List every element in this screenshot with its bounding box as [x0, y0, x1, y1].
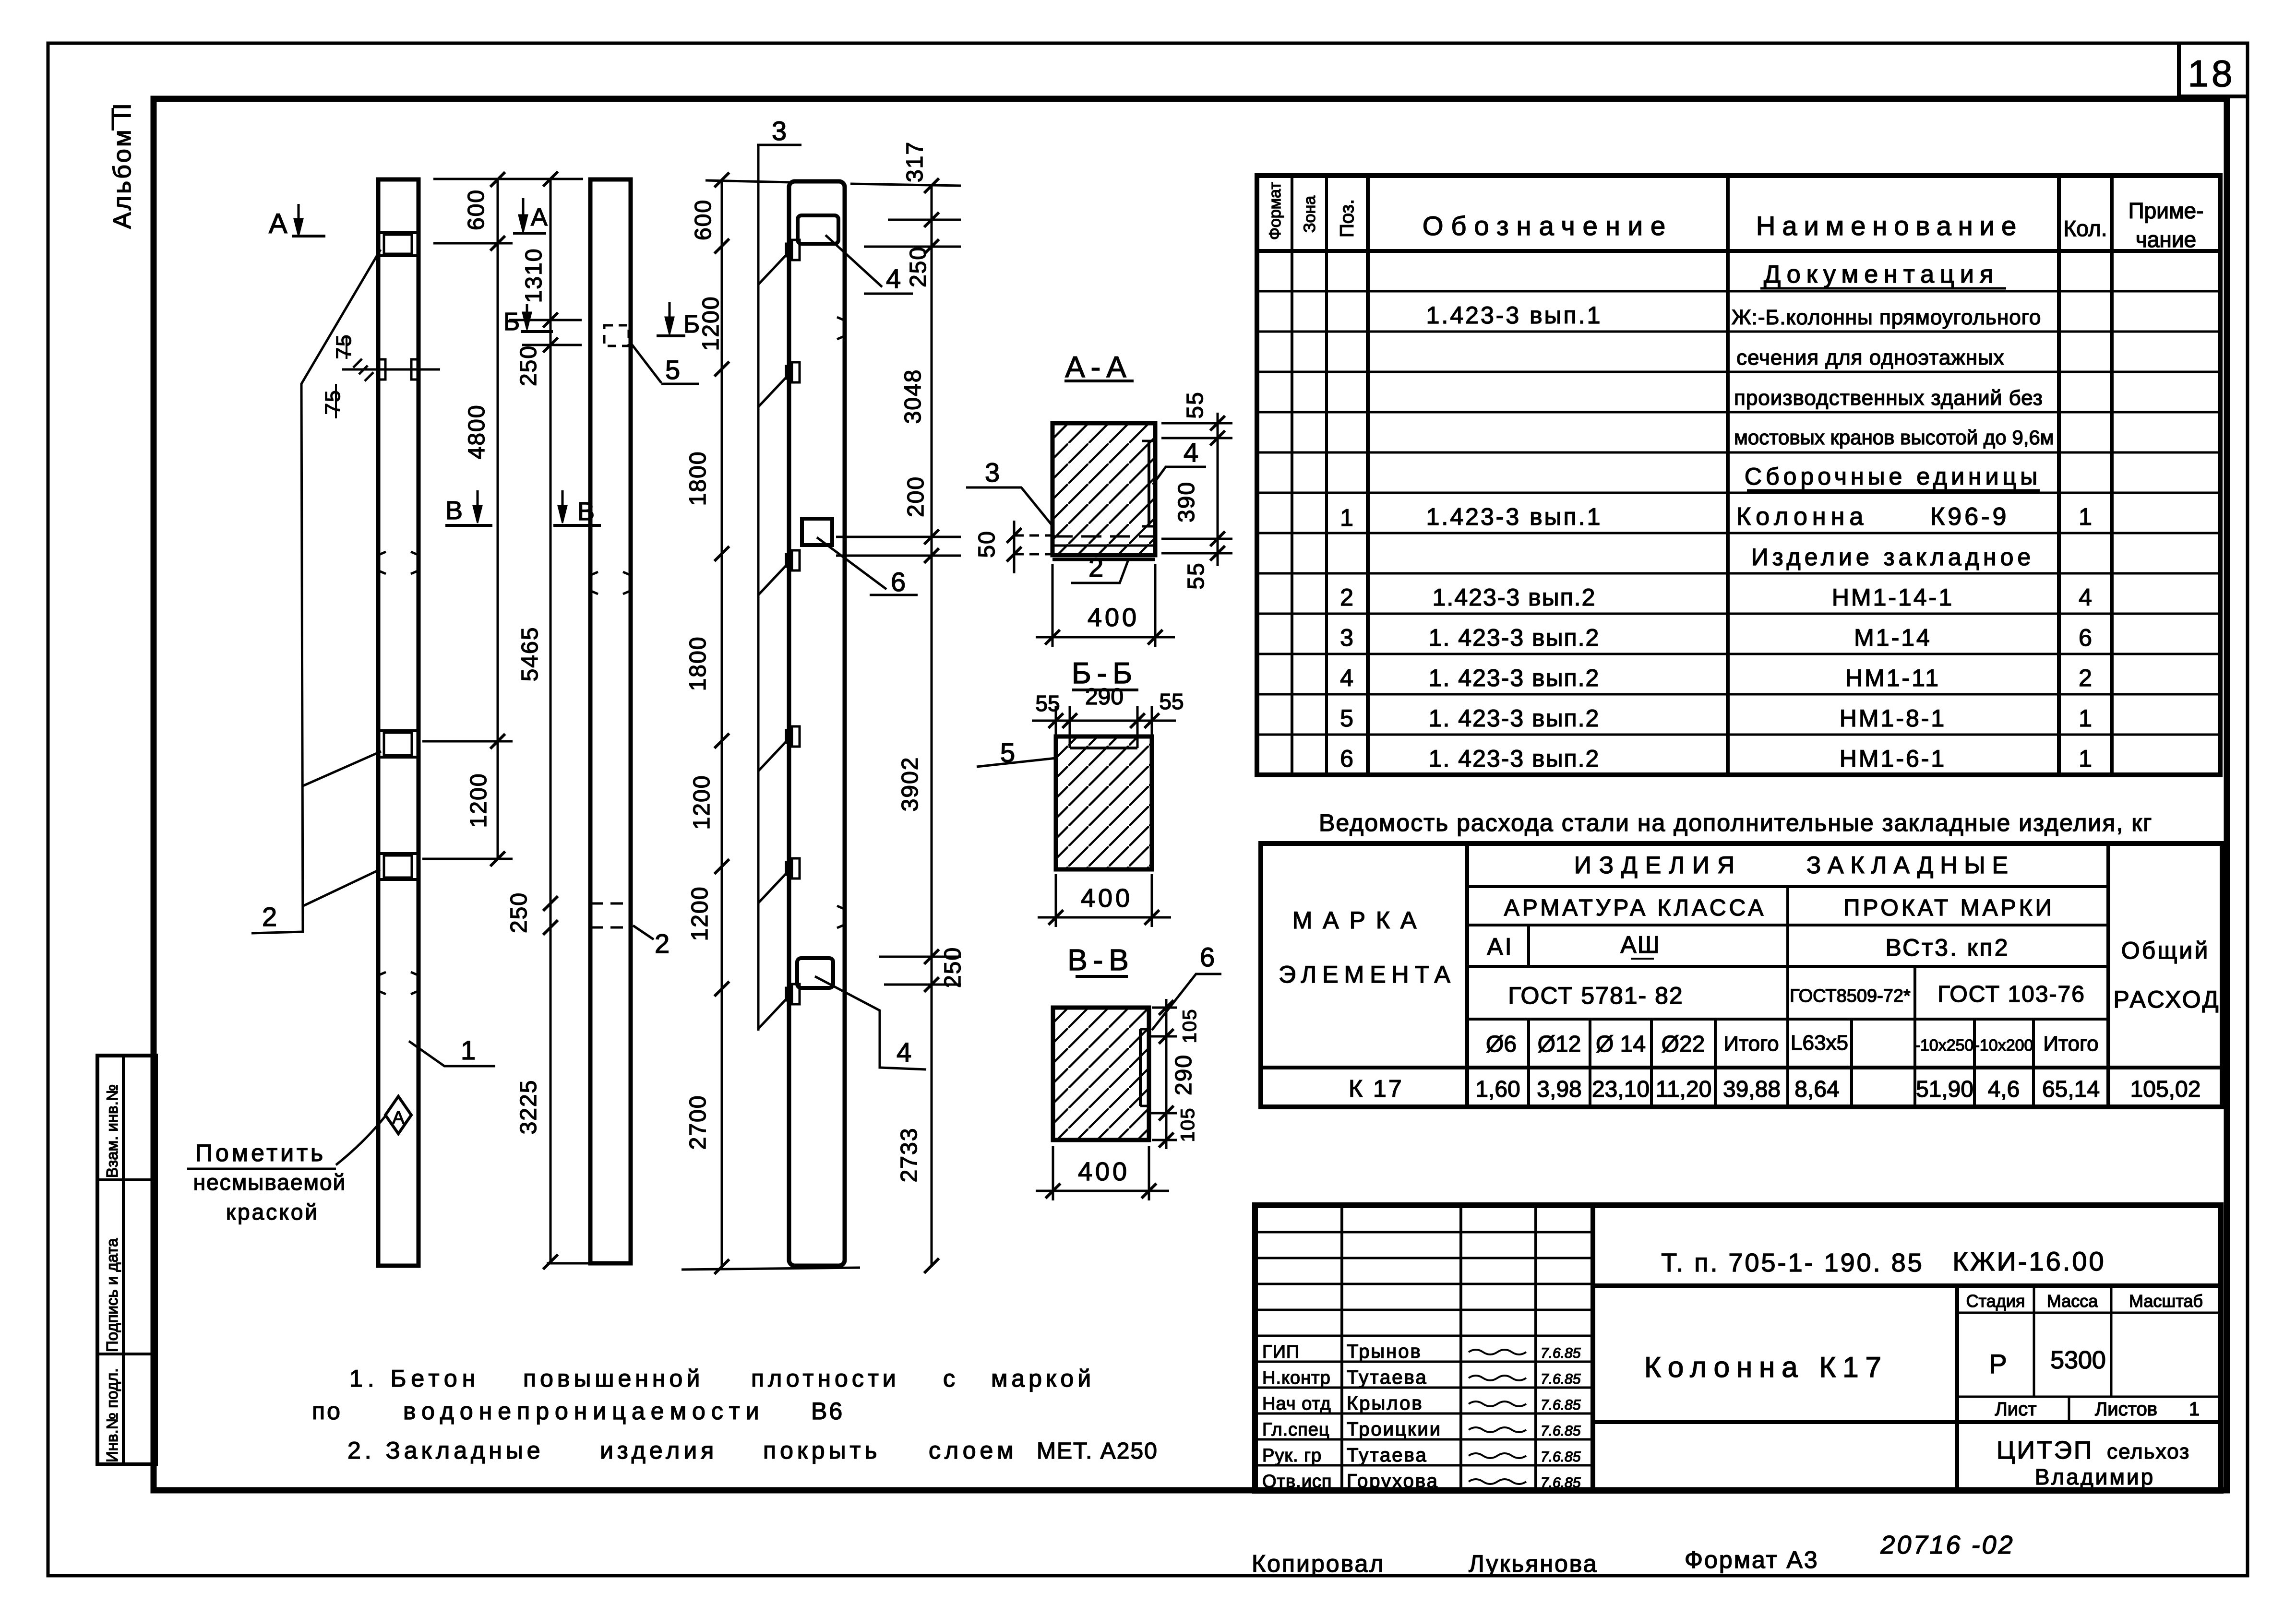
- svg-text:105,02: 105,02: [2130, 1077, 2201, 1102]
- svg-text:4: 4: [1184, 437, 1198, 467]
- svg-text:3: 3: [772, 116, 787, 146]
- section mark A right: [513, 232, 546, 235]
- svg-text:водонепроницаемости: водонепроницаемости: [403, 1398, 765, 1425]
- svg-text:55: 55: [1159, 689, 1184, 714]
- svg-text:290: 290: [1085, 684, 1124, 710]
- svg-text:МЕТ. А250: МЕТ. А250: [1037, 1438, 1158, 1464]
- svg-text:7.6.85: 7.6.85: [1541, 1397, 1581, 1413]
- svg-text:краской: краской: [226, 1199, 319, 1224]
- svg-text:ЭЛЕМЕНТА: ЭЛЕМЕНТА: [1279, 961, 1456, 988]
- svg-text:Тутаева: Тутаева: [1347, 1445, 1428, 1466]
- svg-text:400: 400: [1078, 1157, 1130, 1186]
- svg-text:АРМАТУРА КЛАССА: АРМАТУРА КЛАССА: [1504, 895, 1766, 921]
- label 6 leader: [817, 537, 886, 589]
- col2 hidden plate dashes: [590, 902, 631, 905]
- svg-text:20716 -02: 20716 -02: [1880, 1531, 2014, 1559]
- col1 bracket marks mid: [379, 552, 386, 574]
- svg-text:1200: 1200: [698, 296, 724, 351]
- svg-text:1. 423-3 вып.2: 1. 423-3 вып.2: [1429, 665, 1600, 691]
- svg-text:400: 400: [1081, 884, 1133, 913]
- svg-text:Тутаева: Тутаева: [1347, 1367, 1428, 1388]
- svg-text:маркой: маркой: [991, 1365, 1095, 1392]
- svg-text:Поз.: Поз.: [1337, 199, 1358, 237]
- svg-text:Инв.№ подл.: Инв.№ подл.: [103, 1368, 121, 1462]
- svg-text:Горухова: Горухова: [1347, 1471, 1439, 1492]
- svg-text:1200: 1200: [689, 775, 715, 830]
- svg-text:65,14: 65,14: [2042, 1077, 2100, 1102]
- svg-text:НМ1-11: НМ1-11: [1845, 665, 1940, 691]
- svg-text:1. 423-3 вып.2: 1. 423-3 вып.2: [1429, 624, 1600, 651]
- svg-text:55: 55: [1183, 391, 1208, 418]
- svg-text:55: 55: [1035, 691, 1060, 716]
- svg-text:сечения для одноэтажных: сечения для одноэтажных: [1736, 346, 2005, 369]
- svg-text:7.6.85: 7.6.85: [1541, 1371, 1581, 1387]
- svg-text:317: 317: [902, 141, 928, 182]
- svg-text:Взам. инв.№: Взам. инв.№: [103, 1084, 121, 1178]
- svg-text:6: 6: [891, 567, 906, 597]
- page number box: [2177, 43, 2181, 97]
- svg-text:1: 1: [2079, 503, 2092, 530]
- svg-text:Рук. гр: Рук. гр: [1262, 1446, 1322, 1466]
- svg-text:АI: АI: [1487, 933, 1513, 960]
- svg-text:ВСт3. кп2: ВСт3. кп2: [1885, 934, 2009, 961]
- svg-text:Ø12: Ø12: [1538, 1032, 1581, 1057]
- svg-text:1,60: 1,60: [1475, 1077, 1520, 1102]
- svg-text:7.6.85: 7.6.85: [1541, 1345, 1581, 1361]
- svg-text:повышенной: повышенной: [523, 1365, 704, 1392]
- section A-A body: [1052, 423, 1155, 555]
- svg-text:1. 423-3 вып.2: 1. 423-3 вып.2: [1429, 705, 1600, 732]
- column view 3 outline: [789, 181, 845, 1266]
- svg-text:A: A: [269, 208, 287, 239]
- leader item 2 left: [251, 249, 381, 933]
- svg-text:7.6.85: 7.6.85: [1541, 1423, 1581, 1439]
- svg-text:слоем: слоем: [929, 1437, 1017, 1464]
- svg-text:6: 6: [2079, 624, 2092, 651]
- svg-text:A: A: [531, 203, 548, 231]
- svg-text:50: 50: [974, 530, 1000, 558]
- svg-text:5: 5: [1340, 705, 1353, 732]
- item 4 plate top: [798, 215, 838, 244]
- svg-text:75: 75: [321, 390, 345, 415]
- svg-text:НМ1-14-1: НМ1-14-1: [1832, 584, 1954, 611]
- svg-text:производственных зданий без: производственных зданий без: [1734, 386, 2043, 410]
- svg-text:2: 2: [655, 928, 670, 959]
- svg-text:600: 600: [464, 189, 489, 230]
- svg-text:Ø6: Ø6: [1486, 1032, 1517, 1057]
- svg-text:Сборочные единицы: Сборочные единицы: [1745, 463, 2041, 490]
- svg-text:A: A: [392, 1108, 405, 1128]
- svg-text:Ж:-Б.колонны прямоугольного: Ж:-Б.колонны прямоугольного: [1732, 306, 2041, 329]
- svg-text:1: 1: [2079, 745, 2092, 772]
- svg-text:изделия: изделия: [600, 1437, 717, 1464]
- svg-text:Наименование: Наименование: [1756, 211, 2023, 241]
- svg-text:4,6: 4,6: [1988, 1077, 2020, 1102]
- svg-text:1.423-3 вып.1: 1.423-3 вып.1: [1426, 302, 1602, 329]
- svg-text:4: 4: [1340, 665, 1353, 691]
- svg-text:1: 1: [1340, 504, 1353, 531]
- svg-text:ЗАКЛАДНЫЕ: ЗАКЛАДНЫЕ: [1806, 852, 2015, 879]
- svg-text:L63x5: L63x5: [1791, 1031, 1848, 1055]
- svg-text:600: 600: [691, 199, 716, 240]
- svg-text:18: 18: [2188, 52, 2236, 95]
- svg-text:2: 2: [1088, 552, 1103, 582]
- svg-text:К 17: К 17: [1349, 1075, 1404, 1102]
- svg-text:с: с: [943, 1365, 955, 1392]
- svg-text:Колонна К17: Колонна К17: [1644, 1351, 1888, 1383]
- title block doc number: [1593, 1283, 2221, 1288]
- svg-text:А-А: А-А: [1065, 351, 1132, 384]
- svg-text:3225: 3225: [516, 1080, 541, 1135]
- svg-text:105: 105: [1179, 1009, 1200, 1044]
- V-V right plate item6: [1139, 1029, 1142, 1106]
- svg-text:Обозначение: Обозначение: [1423, 211, 1673, 241]
- svg-text:6: 6: [1340, 745, 1353, 772]
- col1 embedded plate band 3: [378, 852, 419, 855]
- col3 bracket right: [837, 317, 844, 339]
- svg-text:75: 75: [332, 334, 356, 359]
- svg-text:B: B: [445, 496, 463, 525]
- svg-text:Приме-: Приме-: [2129, 198, 2204, 223]
- svg-text:МАРКА: МАРКА: [1292, 907, 1427, 934]
- svg-text:2: 2: [2079, 665, 2092, 691]
- item 6 plate: [802, 519, 832, 545]
- col1 embedded plate band top: [378, 231, 419, 234]
- svg-text:55: 55: [1184, 562, 1209, 589]
- section mark B(cyr) right col3: [657, 334, 685, 337]
- svg-text:покрыть: покрыть: [763, 1437, 881, 1464]
- svg-text:Стадия: Стадия: [1966, 1291, 2025, 1311]
- col1 bracket marks low: [379, 972, 386, 994]
- svg-text:В6: В6: [811, 1398, 844, 1425]
- section V-V body: [1053, 1008, 1149, 1140]
- svg-text:Н.контр: Н.контр: [1262, 1368, 1331, 1388]
- svg-text:Общий: Общий: [2121, 937, 2210, 964]
- svg-text:Р: Р: [1989, 1349, 2007, 1379]
- stadia massa masshtab: [1957, 1312, 2221, 1314]
- svg-text:Б: Б: [683, 310, 700, 338]
- svg-text:Лукьянова: Лукьянова: [1469, 1550, 1598, 1577]
- svg-text:Нач отд: Нач отд: [1262, 1394, 1331, 1414]
- A-A dims right 55-390-55: [1217, 413, 1219, 566]
- svg-text:ГОСТ8509-72*: ГОСТ8509-72*: [1790, 986, 1911, 1006]
- dim chain 1310-250-5465-250-3225: [550, 179, 552, 1263]
- svg-text:Т. п. 705-1- 190. 85: Т. п. 705-1- 190. 85: [1661, 1248, 1924, 1277]
- svg-text:2: 2: [262, 902, 277, 932]
- A-A bottom plate 2: [1052, 535, 1155, 538]
- svg-text:1. 423-3 вып.2: 1. 423-3 вып.2: [1429, 745, 1600, 772]
- svg-text:Документация: Документация: [1764, 261, 1999, 288]
- svg-text:мостовых кранов высотой до 9,6: мостовых кранов высотой до 9,6м: [1734, 426, 2054, 449]
- svg-text:ГИП: ГИП: [1262, 1342, 1300, 1362]
- svg-text:Владимир: Владимир: [2035, 1464, 2155, 1489]
- svg-text:290: 290: [1171, 1054, 1196, 1095]
- svg-text:Копировал: Копировал: [1252, 1550, 1385, 1577]
- svg-text:ЦИТЭП: ЦИТЭП: [1997, 1437, 2093, 1464]
- svg-text:1310: 1310: [521, 248, 547, 303]
- extension line top columns: [433, 178, 583, 180]
- svg-text:8,64: 8,64: [1794, 1077, 1839, 1102]
- svg-text:250: 250: [940, 947, 966, 988]
- svg-text:ИЗДЕЛИЯ: ИЗДЕЛИЯ: [1574, 852, 1742, 879]
- svg-text:1: 1: [461, 1035, 476, 1065]
- svg-text:4800: 4800: [464, 404, 490, 460]
- dim chain 600-4800-1200: [497, 179, 499, 859]
- section B-B body: [1056, 736, 1152, 869]
- svg-text:Масштаб: Масштаб: [2129, 1291, 2203, 1311]
- svg-text:39,88: 39,88: [1723, 1077, 1781, 1102]
- svg-text:1: 1: [2079, 705, 2092, 732]
- specification table frame: [1257, 176, 2220, 775]
- svg-text:400: 400: [1088, 603, 1139, 632]
- svg-text:105: 105: [1177, 1107, 1198, 1142]
- svg-text:ГОСТ 103-76: ГОСТ 103-76: [1937, 982, 2085, 1007]
- svg-text:Ø 14: Ø 14: [1596, 1032, 1646, 1057]
- svg-text:5300: 5300: [2050, 1346, 2106, 1374]
- svg-text:Крылов: Крылов: [1347, 1393, 1423, 1414]
- col1 lifting loop line 75/75: [342, 368, 440, 371]
- col2 bracket marks: [591, 572, 598, 594]
- svg-text:Формат: Формат: [1266, 182, 1284, 240]
- svg-text:250: 250: [906, 246, 931, 287]
- svg-text:по: по: [312, 1398, 342, 1425]
- svg-text:6: 6: [1200, 942, 1215, 972]
- svg-text:Кол.: Кол.: [2064, 216, 2107, 241]
- label 4 top leader: [825, 235, 882, 287]
- svg-text:2. Закладные: 2. Закладные: [347, 1437, 544, 1464]
- svg-text:Лист: Лист: [1995, 1399, 2037, 1420]
- svg-text:ПРОКАТ МАРКИ: ПРОКАТ МАРКИ: [1843, 895, 2055, 921]
- svg-text:Колонна: Колонна: [1736, 503, 1868, 531]
- svg-text:Формат А3: Формат А3: [1685, 1546, 1819, 1573]
- svg-text:сельхоз: сельхоз: [2107, 1440, 2190, 1463]
- svg-text:3: 3: [1340, 624, 1353, 651]
- svg-text:Итого: Итого: [1723, 1032, 1779, 1056]
- V-V dim bottom 400: [1052, 1146, 1054, 1200]
- svg-text:5465: 5465: [517, 627, 543, 682]
- label 4 lower leader: [815, 976, 926, 1069]
- paint mark diamond A: [385, 1096, 411, 1134]
- svg-text:НМ1-6-1: НМ1-6-1: [1840, 745, 1946, 772]
- column view 1 outline: [378, 179, 419, 1266]
- svg-text:5: 5: [665, 355, 680, 385]
- svg-text:НМ1-8-1: НМ1-8-1: [1840, 705, 1946, 732]
- svg-text:1800: 1800: [685, 451, 711, 506]
- A-A dim bottom 400: [1052, 564, 1054, 647]
- svg-text:РАСХОД: РАСХОД: [2114, 986, 2221, 1013]
- svg-text:Б: Б: [503, 308, 520, 336]
- title block frame: [1255, 1205, 2221, 1491]
- svg-text:Листов: Листов: [2095, 1399, 2157, 1420]
- svg-text:В-В: В-В: [1067, 944, 1134, 977]
- svg-text:ГОСТ 5781- 82: ГОСТ 5781- 82: [1508, 982, 1683, 1009]
- svg-text:Зона: Зона: [1301, 196, 1319, 233]
- svg-text:1.423-3 вып.1: 1.423-3 вып.1: [1426, 503, 1602, 530]
- svg-text:Итого: Итого: [2043, 1032, 2098, 1056]
- svg-text:7.6.85: 7.6.85: [1541, 1449, 1581, 1465]
- V-V dims right 105-290-105: [1165, 999, 1168, 1149]
- svg-text:4: 4: [886, 263, 901, 294]
- svg-text:несмываемой: несмываемой: [193, 1170, 347, 1195]
- svg-text:плотности: плотности: [751, 1365, 900, 1392]
- svg-text:4: 4: [897, 1037, 911, 1067]
- svg-text:Пометить: Пометить: [195, 1140, 326, 1166]
- svg-text:23,10: 23,10: [1592, 1077, 1650, 1102]
- svg-text:1.423-3 вып.2: 1.423-3 вып.2: [1433, 584, 1596, 611]
- svg-text:390: 390: [1174, 481, 1199, 522]
- svg-text:7.6.85: 7.6.85: [1541, 1475, 1581, 1491]
- svg-text:Изделие закладное: Изделие закладное: [1751, 544, 2034, 570]
- inner frame: [154, 99, 2227, 1490]
- svg-text:11,20: 11,20: [1656, 1077, 1712, 1102]
- svg-text:Отв.исп: Отв.исп: [1262, 1472, 1332, 1492]
- label 1 leader: [409, 1041, 495, 1066]
- svg-text:чание: чание: [2136, 227, 2196, 252]
- A-A plate 4 notch: [1148, 441, 1150, 526]
- steel table frame: [1261, 843, 2222, 1107]
- svg-text:КЖИ-16.00: КЖИ-16.00: [1952, 1246, 2105, 1276]
- svg-text:Подпись и дата: Подпись и дата: [103, 1238, 121, 1352]
- title block name cell: [1955, 1286, 1959, 1491]
- svg-text:3048: 3048: [900, 369, 926, 424]
- svg-text:-10x250: -10x250: [1915, 1036, 1974, 1055]
- col1 embedded plate band 2: [378, 729, 419, 732]
- svg-text:250: 250: [516, 345, 541, 386]
- column view 2 outline: [590, 179, 631, 1263]
- svg-text:2: 2: [1340, 584, 1353, 611]
- B-B dims top 55-290-55: [1032, 720, 1176, 722]
- svg-text:1800: 1800: [685, 636, 711, 691]
- svg-text:4: 4: [2079, 584, 2092, 611]
- svg-text:Трынов: Трынов: [1347, 1341, 1422, 1362]
- dim chain col3 left: [721, 180, 723, 1268]
- svg-text:2733: 2733: [897, 1128, 922, 1183]
- svg-text:200: 200: [903, 476, 929, 517]
- list listov: [2068, 1397, 2070, 1422]
- svg-text:Троицкии: Троицкии: [1347, 1419, 1442, 1440]
- B-B top notch item5: [1070, 747, 1137, 749]
- svg-text:1200: 1200: [687, 886, 713, 941]
- svg-text:3: 3: [985, 457, 1000, 487]
- svg-text:К96-9: К96-9: [1930, 503, 2009, 531]
- col2 hidden notch item5: [604, 325, 629, 346]
- svg-text:3,98: 3,98: [1537, 1077, 1581, 1102]
- A-A dim left 50: [1013, 521, 1016, 573]
- svg-text:1. Бетон: 1. Бетон: [349, 1365, 480, 1392]
- svg-text:1200: 1200: [466, 773, 491, 828]
- svg-text:2700: 2700: [685, 1095, 711, 1150]
- col3 anchors: [786, 244, 792, 256]
- svg-text:Ведомость расхода стали на доп: Ведомость расхода стали на дополнительны…: [1319, 809, 2152, 836]
- svg-text:3902: 3902: [897, 757, 923, 812]
- svg-text:Масса: Масса: [2047, 1291, 2098, 1311]
- svg-text:Ø22: Ø22: [1662, 1032, 1705, 1057]
- svg-text:М1-14: М1-14: [1854, 624, 1932, 651]
- section mark B right: [553, 524, 601, 527]
- svg-text:1: 1: [2189, 1399, 2200, 1420]
- svg-text:АШ: АШ: [1620, 931, 1660, 958]
- svg-text:-10x200: -10x200: [1974, 1036, 2033, 1055]
- svg-text:51,90: 51,90: [1916, 1077, 1973, 1102]
- svg-text:Гл.спец: Гл.спец: [1262, 1420, 1330, 1440]
- dim chain col3 right: [931, 186, 933, 1267]
- item 4 plate lower: [797, 958, 833, 988]
- margin stamp strip: [97, 1056, 156, 1464]
- svg-text:250: 250: [506, 892, 532, 933]
- B-B dim bottom 400: [1055, 874, 1057, 927]
